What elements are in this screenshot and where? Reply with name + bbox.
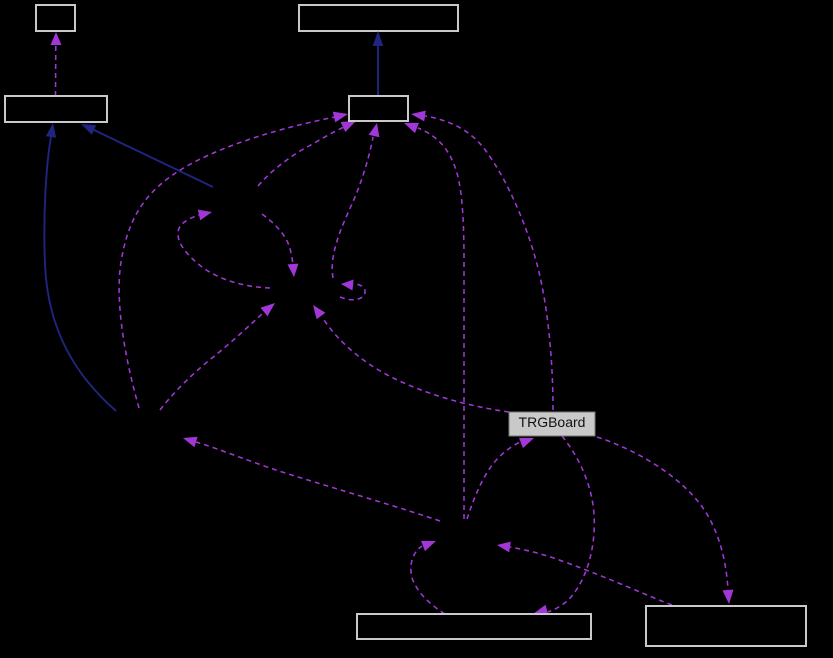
- node bottom-middle box: [357, 614, 591, 639]
- wire: edge nodeC -> nodeA (dashed): [160, 313, 263, 410]
- wire: edge TRGBoard -> box4 (dashed, right bow): [425, 116, 553, 410]
- node box4 (middle class): [349, 96, 408, 121]
- wire: edge box4 -> box3 (solid inheritance): [377, 45, 379, 96]
- svg-text:TRGBoard: TRGBoard: [519, 414, 586, 430]
- wire: edge nodeD -> TRGBoard (dashed): [467, 442, 520, 519]
- wire: edge TRGBoard -> nodeA (dashed): [324, 320, 509, 412]
- wire: edge bottom-right box -> nodeD (dashed): [510, 547, 672, 605]
- wire: edge nodeA self-loop (dashed): [340, 284, 365, 300]
- wire: edge nodeC -> box2 (solid inheritance, left bow): [44, 137, 116, 411]
- wire: edge nodeB -> nodeA (dashed): [262, 214, 293, 264]
- node box2 (left class): [5, 96, 107, 122]
- wire: edge nodeB -> box2 (solid inheritance): [94, 130, 213, 187]
- node bottom-right box: [646, 606, 806, 646]
- wire: edge nodeA -> box4 (dashed): [332, 137, 373, 278]
- wire: edge nodeB -> box4 (dashed): [258, 127, 344, 186]
- wire: edge bottom-middle box -> nodeD (dashed left loop): [411, 546, 445, 614]
- wire: edge nodeC -> box4 (dashed, left tall bow): [119, 117, 335, 408]
- wire: edge nodeD -> nodeC (dashed, long shallow): [196, 442, 440, 521]
- wire: edge nodeA -> nodeB (dashed C-arc): [178, 215, 270, 288]
- wire: edge TRGBoard -> bottom-middle box (dashed right bulge): [548, 436, 594, 612]
- node box3 (top-middle wide class): [299, 5, 458, 31]
- wire: edge nodeD -> box4 (dashed, long vertical): [418, 128, 464, 519]
- wire: edge node2 -> node1 (dashed): [55, 46, 57, 96]
- wire: edge TRGBoard -> bottom-right box (dashed): [597, 437, 728, 590]
- node box1 (top-left class): [36, 5, 75, 31]
- node TRGBoard (highlighted current class): [509, 412, 595, 436]
